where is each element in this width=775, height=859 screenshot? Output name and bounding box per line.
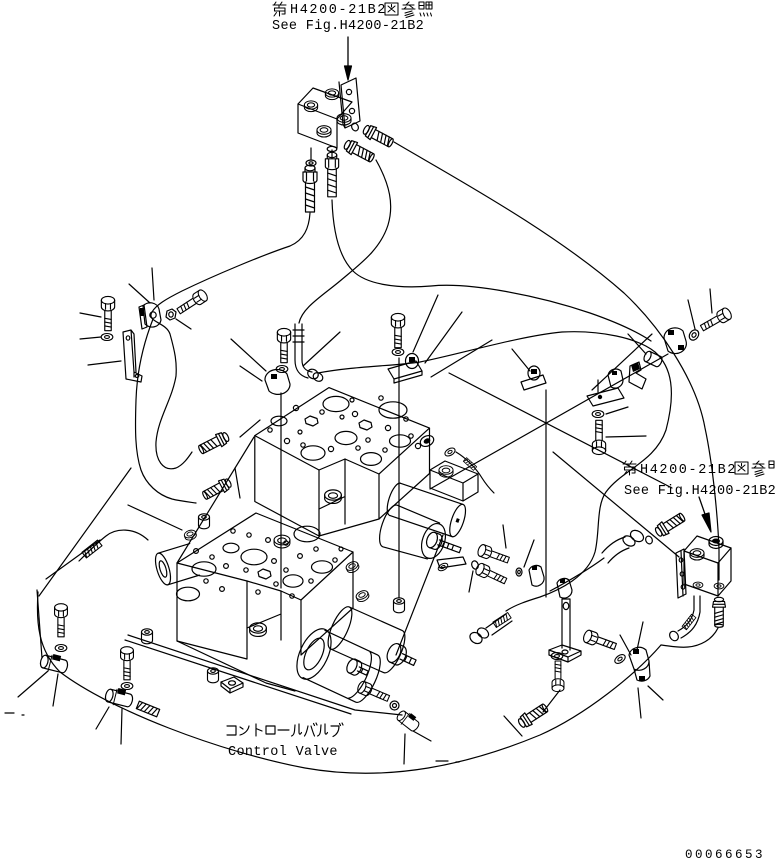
washer ring right cluster [687, 328, 700, 342]
small washer mid right [516, 568, 522, 576]
spacer right cluster [643, 350, 664, 368]
manifold front faces [298, 104, 337, 148]
bolt head-down bottom right [552, 661, 564, 692]
hose clamp bottom 3 [395, 708, 422, 734]
washer above upper block left [276, 365, 288, 372]
cylinder pair A front [290, 624, 386, 707]
leader to it [512, 349, 530, 371]
right valve block [684, 536, 731, 563]
hex fitting on front cylinder face [345, 657, 371, 680]
svg-text:See Fig.H4200-21B2: See Fig.H4200-21B2 [272, 19, 424, 34]
clamp bracket at top right of upper block [528, 366, 540, 380]
leaders clamp 3 [404, 716, 522, 764]
stay plate top-left [123, 330, 142, 382]
lower block right face [301, 552, 353, 655]
hose clamp 4 dark [629, 647, 650, 681]
square pad on bar [221, 677, 243, 693]
right valve adapter fitting [713, 597, 726, 627]
arrow to manifold [347, 37, 349, 67]
elbow fitting bottom center right [468, 614, 512, 646]
cylinder pair A rear [323, 604, 409, 676]
leader to left nipple 2 [235, 468, 240, 498]
leaders to clamp bracket [413, 295, 492, 377]
lower block top holes [177, 526, 344, 601]
mounting bar double line [125, 635, 402, 715]
hose H2 left elbow over clamps down to bottom elbow [318, 332, 671, 611]
socket on bar 2 [207, 668, 218, 683]
leader to flat bracket [592, 334, 652, 390]
svg-text:H4200-21B2: H4200-21B2 [290, 3, 387, 18]
elbow pipe above upper block [295, 324, 312, 378]
leader to elbow [303, 332, 340, 366]
o-ring below manifold 2 [327, 146, 337, 151]
arrow to right valve [699, 497, 706, 517]
o-ring right of manifold [350, 122, 359, 132]
nipple fitting right of manifold 2 [342, 138, 376, 165]
note text right: 第H4200-21B2図参照 [623, 461, 774, 478]
washer below right valve 2 [714, 583, 724, 589]
flat bracket plate right of upper block [587, 388, 624, 406]
bolt bottom row 2 [121, 647, 134, 680]
port fitting lower block right face 2 [355, 589, 371, 603]
stay bracket foot [549, 645, 581, 662]
rear wall edge between blocks [177, 437, 254, 563]
leader to left nipple 1 [240, 420, 260, 437]
leader top-left 4 [129, 284, 150, 303]
line below manifold [311, 148, 332, 159]
z-bracket right cluster [629, 362, 646, 389]
small bar under cylinder B [437, 557, 466, 568]
hose H6 small hose at upper block right [456, 452, 494, 493]
hose clamp bottom 1 [39, 651, 70, 675]
washer ellipse near clamp 4 [613, 653, 627, 665]
right valve bracket plate [676, 549, 686, 598]
clamp above upper block [265, 370, 290, 395]
crimp on hose H8 left [136, 701, 159, 717]
hose from nipple N2 down to elbow [299, 160, 391, 323]
washer top-left [101, 333, 113, 340]
cylinder pair B rear [384, 481, 469, 538]
hose H8 big bottom loop [37, 592, 661, 773]
crimp on hose H6 [463, 458, 476, 471]
washer below right valve 1 [693, 582, 703, 588]
step box right of upper block [430, 461, 478, 501]
hex nut right of clamp [166, 309, 176, 320]
port fitting lower block right face 1 [345, 560, 361, 574]
leaders mid right [503, 525, 534, 567]
manifold port plug front 1 [317, 126, 331, 137]
washer under flat bracket [592, 410, 604, 417]
dash mark bottom center [436, 761, 459, 762]
leader to cylinder hex [396, 535, 443, 655]
leaders clamp 4 [620, 622, 663, 718]
bolt angled top-left [175, 288, 209, 316]
bolt top-left [101, 296, 114, 330]
upper block left-front face [255, 436, 319, 536]
note text top: 第H4200-21B2図参照 [273, 2, 432, 18]
bolt above upper block right [391, 313, 404, 347]
leaders to clamp from left [231, 339, 266, 381]
caption: コントロールバルブ [227, 723, 343, 737]
right valve hex plug top [709, 537, 723, 549]
hex bolt on lower block notch floor [250, 623, 267, 637]
crimp on hose H5 [82, 540, 102, 558]
bolt below flat bracket upside down [592, 420, 605, 454]
o-ring left of right valve [644, 535, 653, 545]
leader to washer right [606, 407, 628, 414]
lower block left-front face [177, 563, 247, 659]
washer bottom row 2 [121, 682, 133, 689]
small clamp right cluster [608, 369, 623, 388]
leaders right cluster [628, 289, 712, 354]
bolt angled right cluster [699, 306, 733, 333]
nipple on bottom hose [516, 701, 550, 730]
clamp piece mid right 1 [529, 565, 544, 586]
hex stud at cylinder B end [425, 531, 463, 558]
hose clamp top-left [143, 303, 161, 327]
port fitting upper block right face [419, 434, 436, 449]
hose clamp bottom 2 [104, 685, 135, 709]
adapter fitting 1 below manifold [303, 165, 317, 212]
washer circle bottom center [390, 701, 399, 710]
hose H1 manifold to right side long sweep [394, 142, 719, 580]
svg-text:Control Valve: Control Valve [228, 745, 338, 760]
leader top-left 3 [88, 361, 121, 365]
manifold hex plug 1 [304, 101, 317, 112]
crimp on bottom elbow hose [493, 613, 511, 628]
nipple fitting left 1 [197, 430, 231, 456]
crimp on right valve elbow [682, 614, 696, 630]
bolt pair mid right 2 [474, 562, 508, 587]
clamp bracket above upper block right [406, 354, 419, 369]
lower block bottom edges [177, 641, 295, 691]
socket below leader [393, 598, 404, 613]
washer above upper block right [392, 348, 404, 355]
leader line L1 to left plate corner [39, 468, 131, 596]
manifold block top [298, 88, 352, 119]
hose H4 manifold adapter loop to left nipple [151, 213, 310, 469]
cylinder pair B front [375, 503, 451, 566]
clamp right cluster [664, 328, 686, 354]
hose from adapter2 to right clamps [332, 200, 651, 341]
leader above flat bracket [597, 380, 599, 392]
upper valve block top face [255, 388, 430, 474]
hex port bolt on lower block rear [274, 535, 290, 548]
leader top-left 5 [152, 268, 154, 300]
left cylinder [152, 544, 199, 587]
hex bolt on upper block notch floor [325, 490, 342, 504]
bolt pair mid right 1 [476, 544, 510, 566]
leader vertical to lower block port [280, 393, 282, 588]
hose to lower left nipple [136, 319, 196, 503]
upper block bottom edge [319, 519, 379, 536]
upper block notch [319, 459, 345, 524]
stay bracket vertical [562, 599, 570, 650]
svg-text:00066653: 00066653 [685, 848, 765, 859]
washer lower right of block [437, 562, 449, 573]
hose H7 right valve adapter to bottom hose [661, 628, 718, 647]
horizontal bolt bottom right [582, 629, 618, 652]
pin and leader under cylinder B [471, 560, 480, 570]
nipple upper left of right valve [653, 511, 687, 539]
washer bottom right [551, 652, 563, 659]
leader diagonal D1 [449, 373, 672, 488]
nipple fitting left 2 [201, 476, 233, 501]
leader vertical to stay bracket [545, 390, 547, 597]
hose end fitting left of right valve [602, 528, 646, 563]
socket on bar 1 [141, 629, 152, 644]
washer below manifold [306, 160, 316, 166]
leader top-left 6 [176, 319, 191, 329]
right valve hex plug front [690, 549, 704, 560]
hex bolt on step box [439, 466, 453, 477]
leader to bottom nipple [543, 690, 560, 712]
washer at upper block right face [444, 446, 457, 457]
cap cylinder upper left [198, 514, 209, 529]
lower block notch [247, 591, 281, 640]
bolt above upper block left [277, 328, 290, 362]
leader top-left 2 [80, 337, 101, 339]
leaders clamp 2 [96, 707, 122, 744]
leader diagonal D3 to right valve bracket [553, 452, 679, 557]
upper block right face [379, 428, 430, 519]
manifold port plug front 2 [337, 114, 351, 125]
lower valve block top face [177, 513, 353, 600]
plate left edge [37, 590, 42, 658]
nipple fitting right of manifold 1 [361, 123, 395, 150]
svg-text:H4200-21B2: H4200-21B2 [640, 463, 737, 478]
leader to left fitting [128, 505, 182, 530]
leader to bolt right [606, 436, 646, 437]
right valve elbow fitting [678, 596, 700, 638]
leader to hose end crimp [46, 540, 100, 579]
short hose from banjo down left [550, 558, 604, 591]
manifold hex plug 2 [325, 89, 338, 100]
leader vertical right of blocks [398, 358, 400, 598]
hose H5 left elbow short hose [79, 530, 148, 561]
washer bottom row 1 [55, 644, 67, 651]
leaders clamp 1 [18, 671, 58, 706]
adapter fitting 2 below manifold [325, 152, 338, 196]
small hex fitting left of block [183, 529, 197, 542]
dash mark bottom left [5, 713, 24, 715]
leader diagonal D2 [430, 354, 668, 489]
angled bolt bottom center [356, 680, 391, 704]
leader top-left 1 [80, 313, 101, 317]
bolt bottom row 1 [55, 604, 68, 637]
upper block top holes [268, 396, 421, 466]
clamp piece mid right 2 [557, 578, 572, 598]
hex stud at cylinder A end [384, 641, 419, 671]
manifold bracket plate [339, 78, 360, 128]
